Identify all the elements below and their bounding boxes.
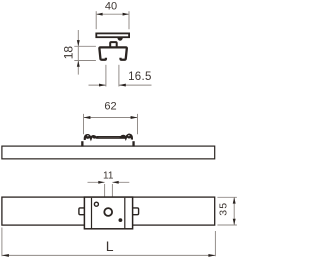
dim line 16.5 right tail xyxy=(119,84,152,86)
arrow 62 left xyxy=(84,116,91,119)
arrow 16.5 right (pointing left) xyxy=(119,84,126,87)
svg-text:16.5: 16.5 xyxy=(128,71,152,83)
arrow 11 left (pointing right) xyxy=(98,181,104,184)
right retainer tab xyxy=(132,141,134,146)
plate inner fold line right xyxy=(124,198,126,229)
arrow 62 right xyxy=(131,116,138,119)
svg-text:L: L xyxy=(106,238,114,254)
arrow 18 top (outside, pointing down) xyxy=(77,40,80,46)
svg-text:40: 40 xyxy=(105,1,117,13)
clamp right curl xyxy=(120,135,132,140)
clamp strip inner highlight xyxy=(99,136,124,138)
dim line 40 xyxy=(96,13,129,15)
dim line 35 xyxy=(233,197,235,225)
extension line 62 left xyxy=(83,114,85,134)
left retainer tab xyxy=(81,141,83,146)
svg-text:62: 62 xyxy=(104,101,116,113)
dim line 11 right tail xyxy=(112,181,129,183)
small hole xyxy=(94,202,98,206)
dim line 62 xyxy=(84,117,138,119)
arrow 16.5 left (pointing right) xyxy=(99,84,106,87)
extension line 11 right xyxy=(111,184,113,207)
arrow L right xyxy=(208,254,215,257)
arrow 40 right xyxy=(123,13,129,16)
clamp strip (flat middle) xyxy=(97,136,126,139)
svg-text:35: 35 xyxy=(218,202,230,216)
svg-text:18: 18 xyxy=(62,46,76,60)
weld nub under plate xyxy=(117,38,122,41)
dim 35: extension lines xyxy=(217,196,237,198)
dim line L xyxy=(2,254,216,256)
left side tab of centre plate xyxy=(79,208,85,215)
rivet dot xyxy=(119,218,123,222)
plate inner fold line left xyxy=(91,198,93,229)
arrow 18 bottom (outside, pointing up) xyxy=(77,61,80,67)
extension line 40 left xyxy=(95,11,97,29)
arrow L left xyxy=(2,254,9,257)
profile rail side view (long bar) xyxy=(2,146,215,159)
dim line 11 left tail xyxy=(88,181,105,183)
extension line 18 top xyxy=(74,45,96,47)
hump on channel xyxy=(110,42,117,46)
C-rail channel profile xyxy=(99,47,126,59)
top plate (flat bar profile) xyxy=(96,33,129,37)
svg-text:11: 11 xyxy=(103,171,114,182)
centre plate xyxy=(84,197,132,229)
dim L: extension lines xyxy=(1,228,3,257)
arrow 11 right (pointing left) xyxy=(113,181,119,184)
dim line 16.5 left tail xyxy=(89,84,106,86)
extension line 62 right xyxy=(137,114,139,134)
profile rail plan view (long bar) xyxy=(2,197,215,225)
dim 16.5: extension lines xyxy=(105,65,107,87)
extension line 40 right xyxy=(128,11,130,29)
centre hole xyxy=(104,208,112,216)
clamp left curl xyxy=(85,135,97,140)
arrow 35 bottom xyxy=(233,219,236,225)
right side tab of centre plate xyxy=(132,208,138,215)
dim 18: vertical line xyxy=(77,30,79,75)
extension line 11 left xyxy=(104,184,106,207)
arrow 35 top xyxy=(233,197,236,203)
extension line 18 bottom xyxy=(74,60,96,62)
arrow 40 left xyxy=(96,13,102,16)
